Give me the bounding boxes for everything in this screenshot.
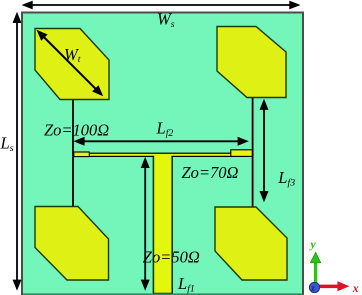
svg-text:Zo=100Ω: Zo=100Ω xyxy=(44,121,109,140)
svg-text:z: z xyxy=(311,283,316,293)
svg-text:Zo=50Ω: Zo=50Ω xyxy=(143,247,200,266)
svg-text:Zo=70Ω: Zo=70Ω xyxy=(182,163,239,182)
svg-text:y: y xyxy=(309,239,317,251)
svg-text:x: x xyxy=(352,283,359,295)
